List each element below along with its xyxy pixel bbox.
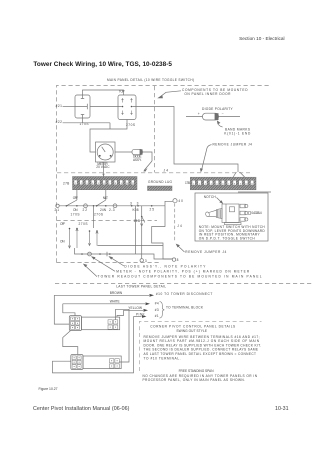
jumper J4 wire to strip 17B <box>136 107 238 173</box>
svg-text:J4: J4 <box>164 169 169 173</box>
svg-text:24N: 24N <box>100 208 107 212</box>
meter M1 <box>96 142 116 162</box>
svg-text:ON PANEL INNER DOOR: ON PANEL INNER DOOR <box>184 92 231 96</box>
staircase wire to terminal 8 <box>152 206 173 259</box>
svg-text:17B: 17B <box>185 181 190 185</box>
wire between right clusters <box>116 309 129 362</box>
svg-text:ON: ON <box>60 240 65 244</box>
terminal strip 27B <box>73 177 138 190</box>
svg-text:8: 8 <box>177 258 179 262</box>
svg-text:TO TERMINAL BLOCK: TO TERMINAL BLOCK <box>166 305 204 309</box>
wire brown drop <box>54 295 69 324</box>
svg-text:ASS'Y.: ASS'Y. <box>133 158 142 162</box>
svg-text:0-6338-4: 0-6338-4 <box>251 211 261 215</box>
wire 21 to relay <box>63 106 75 108</box>
wire relay to switch <box>90 106 118 108</box>
svg-text:3: 3 <box>130 202 132 206</box>
svg-text:−: − <box>222 112 224 116</box>
wire diode to strip 27B <box>143 152 153 161</box>
svg-text:#21: #21 <box>56 104 63 108</box>
brace to terminal block <box>160 302 165 319</box>
wire meter to diode <box>115 151 132 153</box>
ladder rung wire <box>59 205 165 207</box>
svg-text:ON: ON <box>73 208 78 212</box>
terminal 3 <box>140 259 143 262</box>
toggle switch drawing <box>205 204 248 225</box>
svg-text:#3: #3 <box>155 308 159 312</box>
svg-text:REMOVE JUMPER J4: REMOVE JUMPER J4 <box>213 142 253 146</box>
bottom section separator dashed line <box>55 283 312 285</box>
svg-text:METER - NOTE POLARITY, POS (+): METER - NOTE POLARITY, POS (+) MARKED ON… <box>116 269 250 273</box>
svg-text:WHITE: WHITE <box>110 299 120 303</box>
svg-text:OFF: OFF <box>60 222 65 226</box>
toggle switch 270S <box>118 95 136 120</box>
main panel dashed enclosure <box>57 86 271 263</box>
svg-text:J4: J4 <box>177 224 182 228</box>
svg-text:27B: 27B <box>63 181 69 185</box>
svg-text:MAIN PANEL DETAIL (10 WIRE TOG: MAIN PANEL DETAIL (10 WIRE TOGGLE SWITCH… <box>107 78 194 82</box>
svg-text:170S: 170S <box>71 213 80 217</box>
wire rung k <box>98 245 164 247</box>
svg-text:BROWN: BROWN <box>110 291 123 295</box>
svg-text:15B: 15B <box>134 219 141 223</box>
svg-text:3: 3 <box>137 202 139 206</box>
svg-text:YELLOW: YELLOW <box>128 306 142 310</box>
leader arrow to panel door boundary <box>159 91 181 98</box>
svg-text:25: 25 <box>150 207 155 211</box>
svg-text:40: 40 <box>178 199 183 203</box>
wire switch bottom to meter loop <box>90 120 127 153</box>
terminal 8 <box>172 258 175 261</box>
svg-text:PINK: PINK <box>136 312 146 316</box>
relay 170S <box>75 95 90 118</box>
svg-text:K(01)-1 END: K(01)-1 END <box>224 131 251 135</box>
svg-text:#1: #1 <box>155 314 159 318</box>
svg-text:NOTCH: NOTCH <box>204 195 217 199</box>
svg-text:270S: 270S <box>79 222 88 226</box>
node 25 <box>151 205 153 207</box>
junction to 270S detail <box>93 205 95 207</box>
wire yellow drop <box>117 310 124 317</box>
svg-text:SWING OUT STYLE: SWING OUT STYLE <box>176 329 207 333</box>
svg-text:3: 3 <box>145 259 147 263</box>
note leader diode <box>110 257 125 266</box>
svg-text:FREE STANDING SPAN: FREE STANDING SPAN <box>179 369 215 373</box>
contact 15B branch <box>141 206 143 259</box>
svg-text:+: + <box>198 112 200 116</box>
svg-text:270S: 270S <box>94 213 103 217</box>
svg-text:2-3: 2-3 <box>109 208 115 212</box>
jumper J4 dashed <box>174 203 176 242</box>
svg-text:DIODE ASS'Y., NOTE POLARITY: DIODE ASS'Y., NOTE POLARITY <box>124 264 206 268</box>
strip stubs to ladder <box>77 190 106 200</box>
meter rung <box>75 248 173 259</box>
label 0-6338-4 <box>248 212 250 215</box>
svg-text:TOWER READOUT COMPONENTS TO BE: TOWER READOUT COMPONENTS TO BE MOUNTED I… <box>98 274 262 278</box>
svg-text:21: 21 <box>55 208 60 212</box>
wire pink drop <box>53 317 134 373</box>
svg-text:OFF: OFF <box>73 196 78 200</box>
svg-text:GROUND LUG: GROUND LUG <box>148 180 173 184</box>
leader band marks <box>218 122 223 128</box>
svg-text:#4: #4 <box>155 302 159 306</box>
svg-text:REMOVE JUMPER J4: REMOVE JUMPER J4 <box>185 250 226 254</box>
diode assembly D1 <box>132 149 143 154</box>
svg-text:ON D.P.D.T. TOGGLE SWITCH: ON D.P.D.T. TOGGLE SWITCH <box>199 236 256 240</box>
relay module 1 <box>82 317 120 330</box>
svg-text:NLT: NLT <box>103 196 108 200</box>
note leader meter <box>92 257 115 271</box>
corner pivot dashed box <box>140 321 262 371</box>
svg-text:LAST TOWER PANEL DETAIL: LAST TOWER PANEL DETAIL <box>116 285 166 289</box>
wire meter bottom to strip <box>103 162 105 177</box>
rail line right of strip 17B <box>238 191 271 193</box>
svg-text:22: 22 <box>83 208 88 212</box>
wire module1 to module2 left <box>63 331 78 355</box>
wire relay top to switch top <box>83 90 124 95</box>
relay module 2 <box>83 356 121 369</box>
svg-text:TOP: TOP <box>119 89 125 93</box>
svg-text:DIODE POLARITY: DIODE POLARITY <box>202 107 234 111</box>
svg-text:TO #10 TERMINAL.: TO #10 TERMINAL. <box>144 356 181 360</box>
wire 22 run <box>63 118 110 129</box>
toggle switch detail box <box>195 193 268 241</box>
svg-text:#10 TO TOWER DISCONNECT: #10 TO TOWER DISCONNECT <box>156 292 212 296</box>
wire white drop <box>63 304 75 316</box>
svg-text:PROCESSOR PANEL, ONLY IN MAIN: PROCESSOR PANEL, ONLY IN MAIN PANEL AS S… <box>143 378 246 382</box>
terminal 40 <box>165 201 173 206</box>
svg-text:#22: #22 <box>56 120 63 124</box>
branch wire node 3a <box>135 206 137 254</box>
note leader tower readout <box>84 265 97 277</box>
terminal 21 <box>56 204 59 207</box>
